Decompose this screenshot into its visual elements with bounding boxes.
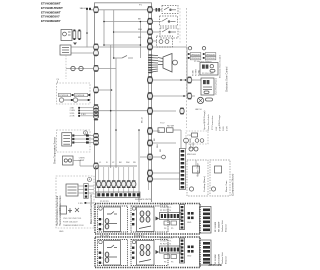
svg-text:Warm Zone: Warm Zone xyxy=(225,180,228,192)
row1 center inner box xyxy=(137,207,155,232)
terminal strip xyxy=(96,192,140,198)
door switch SW1 xyxy=(160,16,178,26)
row2 center element block xyxy=(131,240,168,266)
wire rail y32 xyxy=(115,31,150,33)
oven relay board box xyxy=(201,78,214,95)
row1 circled marker xyxy=(99,207,102,210)
model list text block xyxy=(41,2,63,23)
sensor pin squares xyxy=(72,134,74,143)
oven door switch circles xyxy=(71,66,83,70)
legend row 1 xyxy=(188,53,216,57)
row1 center element pills xyxy=(140,211,150,222)
svg-text:Surface Unit: Surface Unit xyxy=(221,220,224,232)
rotated labels mid right xyxy=(204,110,221,131)
junction dots xyxy=(86,21,141,131)
vertical dropper x139 xyxy=(138,130,140,202)
svg-text:1PM200B: 1PM200B xyxy=(191,54,200,56)
svg-text:L1: L1 xyxy=(101,219,103,221)
TCO boxes on y131 wire xyxy=(158,128,173,133)
row1 vertical connector column xyxy=(180,205,185,230)
wire labels top xyxy=(80,5,143,40)
svg-text:(Components Shown): (Components Shown) xyxy=(232,174,235,196)
bus tick blobs xyxy=(148,54,152,73)
svg-text:WH: WH xyxy=(138,29,142,31)
svg-text:LATCH: LATCH xyxy=(195,108,202,111)
svg-text:BK WH: BK WH xyxy=(193,142,195,149)
svg-text:WH: WH xyxy=(126,162,130,164)
svg-text:Speed (MW Range): Speed (MW Range) xyxy=(204,110,206,130)
svg-text:SURFACE UNITS: SURFACE UNITS xyxy=(135,198,152,201)
svg-text:P7 Convection: P7 Convection xyxy=(211,115,214,130)
svg-text:5 BU: 5 BU xyxy=(81,114,86,116)
wire rail y21.5 xyxy=(104,21,150,23)
terminal block box xyxy=(60,45,71,55)
svg-text:2 WH: 2 WH xyxy=(220,125,222,131)
svg-text:P1 P2 P3 P4: P1 P2 P3 P4 xyxy=(160,210,171,212)
svg-text:BK-12: BK-12 xyxy=(142,116,144,123)
row1 comb strip xyxy=(160,213,182,220)
TCO labels xyxy=(160,123,175,128)
svg-text:P4 RD: P4 RD xyxy=(199,69,201,76)
bake circles xyxy=(187,147,198,156)
legend cell 1 xyxy=(59,93,74,97)
grommet pair 2 xyxy=(73,98,89,102)
svg-text:1PM200B: 1PM200B xyxy=(75,95,85,97)
wires relay box to column xyxy=(78,186,94,193)
circle on y143 xyxy=(184,138,189,143)
convection dashed box xyxy=(186,131,208,144)
cluster labels above xyxy=(99,162,136,164)
svg-text:RF 1200W: RF 1200W xyxy=(215,222,217,232)
svg-text:3 RD: 3 RD xyxy=(223,126,225,131)
relay contact box top xyxy=(162,6,178,14)
svg-text:TCO: TCO xyxy=(160,123,165,125)
oven lamp box xyxy=(63,156,74,165)
svg-text:2 WH: 2 WH xyxy=(70,110,76,112)
svg-text:L2: L2 xyxy=(101,229,103,231)
row2 text above comb xyxy=(160,238,173,246)
harness 4 wires xyxy=(80,108,94,116)
svg-text:L1: L1 xyxy=(101,253,103,255)
row1 text above comb xyxy=(160,204,173,212)
svg-text:4 OR: 4 OR xyxy=(70,116,75,118)
wire end plug y96 xyxy=(187,93,191,99)
legend row 2 xyxy=(188,57,216,61)
plug row caps xyxy=(97,180,136,188)
sensor inner box xyxy=(62,133,72,146)
main bus ring caps xyxy=(148,6,152,182)
row1 center pin dots xyxy=(132,213,134,225)
ground symbol xyxy=(60,206,79,214)
vertical dropper x87 xyxy=(86,10,88,48)
wire y58 with switch xyxy=(114,57,122,59)
row1 2x2 dots xyxy=(188,212,194,219)
legend cell 2 xyxy=(75,93,91,97)
svg-text:1 BK: 1 BK xyxy=(70,108,75,110)
wire rail y47.5 xyxy=(71,46,96,48)
row1 boxes below comb xyxy=(164,221,177,225)
svg-text:Hidden Bake: Hidden Bake xyxy=(197,163,200,177)
plug row xyxy=(97,181,136,187)
svg-text:3 RD: 3 RD xyxy=(70,113,75,115)
rotated label latch mw xyxy=(189,138,195,149)
svg-text:P4: P4 xyxy=(164,262,166,264)
svg-text:1PM200B: 1PM200B xyxy=(206,58,215,60)
latch motor xyxy=(197,97,212,103)
grommet pair 1 xyxy=(59,98,73,102)
dashed drop left xyxy=(65,55,67,79)
main bus connector rings xyxy=(148,7,153,182)
svg-text:TRANSFORMER 120V: TRANSFORMER 120V xyxy=(63,224,84,227)
svg-text:RD WH: RD WH xyxy=(167,126,175,128)
svg-text:FUSE 15A 240V: FUSE 15A 240V xyxy=(63,221,78,224)
row2 center circled marker xyxy=(132,240,135,243)
svg-text:WH: WH xyxy=(157,144,159,148)
svg-text:1 RD: 1 RD xyxy=(78,203,83,205)
row2 center element pills xyxy=(140,244,150,255)
row1 left inner box xyxy=(104,207,121,232)
row2 left pin dots xyxy=(99,252,101,264)
svg-text:P5: P5 xyxy=(171,262,173,264)
splice legend dashed box xyxy=(57,83,91,104)
wire rail L1 y9.8 xyxy=(89,9,150,11)
svg-text:1PM200B: 1PM200B xyxy=(59,95,69,97)
vertical dropper x104 xyxy=(103,10,105,45)
row2 terminal strip right xyxy=(200,240,212,265)
below-box marks xyxy=(59,231,64,233)
dashed boundary x180 top xyxy=(179,8,181,44)
wires right of main bus xyxy=(140,10,201,179)
row2 center inner box xyxy=(137,241,155,266)
wire rail y90 xyxy=(97,89,112,91)
wire rail y110.7 xyxy=(98,110,148,112)
chassis box outline xyxy=(95,3,152,202)
svg-text:The Performance Sensor and: The Performance Sensor and xyxy=(56,195,59,226)
svg-text:Latch (MW): Latch (MW) xyxy=(189,138,192,149)
svg-text:LR 1800W: LR 1800W xyxy=(219,254,221,264)
vertical dropper x140.4 xyxy=(139,22,141,59)
harness wire labels xyxy=(70,108,76,118)
svg-text:GND: GND xyxy=(187,256,192,258)
left bus ring caps xyxy=(94,6,98,169)
svg-text:GY BU VT YL: GY BU VT YL xyxy=(160,241,172,243)
svg-text:4 OR: 4 OR xyxy=(227,126,229,131)
row1 center element block xyxy=(131,206,168,232)
inner harness line xyxy=(148,6,150,190)
DLB connector column xyxy=(179,149,185,190)
svg-text:Electronic Oven Control: Electronic Oven Control xyxy=(226,66,229,92)
svg-text:Oven Door Latch: Oven Door Latch xyxy=(207,114,210,131)
transformer cluster box xyxy=(96,166,138,198)
row2 circled marker xyxy=(99,240,102,243)
row2 left connector ovals xyxy=(105,252,109,262)
row2 left pin labels xyxy=(101,253,103,265)
row1 right rotated labels xyxy=(215,220,228,232)
svg-text:MW 1000: MW 1000 xyxy=(187,154,197,156)
svg-text:LF 1200W: LF 1200W xyxy=(215,254,217,264)
control inner relay box xyxy=(66,184,78,196)
warm lock box A xyxy=(187,160,208,196)
svg-text:BK WH RD OR: BK WH RD OR xyxy=(160,204,173,206)
svg-text:RD: RD xyxy=(138,37,142,39)
row2 left switch block xyxy=(98,240,128,266)
interlock box with motor xyxy=(61,30,72,41)
svg-text:CN1 CN2 CN3 P101: CN1 CN2 CN3 P101 xyxy=(63,218,82,220)
wire rail y68 xyxy=(66,68,116,70)
svg-text:Element: Element xyxy=(225,224,228,232)
svg-text:ETVH36E9W7: ETVH36E9W7 xyxy=(41,19,61,23)
rotated labels left of EOC xyxy=(193,69,201,76)
row2 arrow xyxy=(156,250,160,254)
row2 2x2 dots xyxy=(188,246,194,253)
pin rotated labels right xyxy=(216,125,229,131)
wire lamp to edge xyxy=(73,160,80,162)
plug stub wires xyxy=(99,167,134,193)
resistor R2 vertical xyxy=(78,30,81,41)
wire labels left of rings y139-152 xyxy=(154,138,162,152)
vertical dropper x113.7 xyxy=(113,10,115,58)
svg-text:Element: Element xyxy=(225,256,228,264)
row2 left inner box xyxy=(104,241,121,266)
oven sensor dashed box xyxy=(57,130,91,152)
EOC display board box xyxy=(200,63,218,76)
wire y45 xyxy=(104,44,140,46)
svg-text:L2: L2 xyxy=(101,263,103,265)
control bottom text xyxy=(63,218,84,227)
row2 boxes below comb xyxy=(164,255,177,259)
svg-text:Surface Unit: Surface Unit xyxy=(221,252,224,264)
svg-text:GND: GND xyxy=(59,231,64,233)
svg-text:P2 WH: P2 WH xyxy=(196,69,198,76)
svg-text:Oven Relay Board: Oven Relay Board xyxy=(214,77,217,95)
harness wire start dots xyxy=(78,107,80,117)
left bus connector rings xyxy=(94,7,99,169)
svg-text:P4: P4 xyxy=(164,228,166,230)
svg-text:P3 CN1 GND: P3 CN1 GND xyxy=(202,73,214,75)
svg-text:RR 1800W: RR 1800W xyxy=(219,222,221,232)
svg-text:GND: GND xyxy=(187,222,192,224)
control dashed box left xyxy=(56,176,94,228)
sensor wires xyxy=(75,136,94,143)
svg-text:Cooktop (Warm): Cooktop (Warm) xyxy=(203,176,206,192)
row2 center pin dots xyxy=(132,247,134,259)
svg-text:P1 P2 P3: P1 P2 P3 xyxy=(100,201,109,203)
vertical dropper x110.7 xyxy=(110,45,112,168)
small circle on y157 wire xyxy=(162,155,166,159)
circled A marker xyxy=(84,131,88,135)
svg-text:RD: RD xyxy=(160,148,162,152)
control connector column xyxy=(84,184,88,199)
svg-text:A05050105E: A05050105E xyxy=(209,264,223,267)
svg-text:GY BU VT YL: GY BU VT YL xyxy=(160,207,172,209)
row1 center circled marker xyxy=(132,207,135,210)
svg-text:Electronic Oven Control: Electronic Oven Control xyxy=(219,54,222,78)
bus tick stack y55-73 xyxy=(148,55,158,73)
row1 outer hatched xyxy=(95,204,200,235)
wire rail y47 xyxy=(97,46,150,48)
svg-text:1PM200B: 1PM200B xyxy=(191,58,200,60)
svg-text:1BK-8: 1BK-8 xyxy=(80,8,87,10)
svg-text:Main Control Board Assembly: Main Control Board Assembly xyxy=(90,193,93,224)
wire end plug y80 xyxy=(187,77,191,83)
resistor R1 vertical xyxy=(73,30,76,41)
legend circles xyxy=(188,47,191,50)
svg-text:P1 P2 P3 P4: P1 P2 P3 P4 xyxy=(160,244,171,246)
junction dots right xyxy=(180,79,186,97)
sensor mid connector xyxy=(86,134,89,143)
row1 left connector ovals xyxy=(105,219,109,229)
svg-text:P1 BK: P1 BK xyxy=(193,69,195,76)
row1 left switch block xyxy=(98,206,128,232)
wire end plug y111 xyxy=(180,108,184,114)
row2 outer hatched xyxy=(95,237,200,268)
indicator lamps L1 L2 xyxy=(157,36,173,47)
svg-text:1PM200B: 1PM200B xyxy=(206,54,215,56)
svg-text:LAMP: LAMP xyxy=(79,159,85,162)
row2 comb strip xyxy=(160,246,182,253)
row2 right rotated labels xyxy=(215,252,228,264)
inline splice dots xyxy=(86,8,91,10)
warm lock box B xyxy=(210,160,230,196)
console dashed boundary xyxy=(186,8,188,128)
svg-text:MW Range: MW Range xyxy=(219,114,221,126)
wire rail y53 xyxy=(71,52,96,54)
row1 terminal strip right xyxy=(200,207,212,234)
door switch SW2 xyxy=(160,28,178,38)
diode marks xyxy=(73,43,77,46)
row1 left pin dots xyxy=(99,218,101,230)
circled A marker 2 xyxy=(88,178,92,182)
svg-text:BK WH RD OR: BK WH RD OR xyxy=(160,238,173,240)
svg-text:P5: P5 xyxy=(171,228,173,230)
row1 left pin labels xyxy=(101,219,103,231)
row1 arrow xyxy=(156,217,160,221)
vertical dropper x116 xyxy=(115,58,117,168)
svg-text:1 BK: 1 BK xyxy=(216,126,218,131)
row2 vertical connector column xyxy=(180,238,185,263)
cooling fan motor xyxy=(158,54,177,73)
svg-text:Oven Temperature Sensor: Oven Temperature Sensor xyxy=(53,137,56,164)
